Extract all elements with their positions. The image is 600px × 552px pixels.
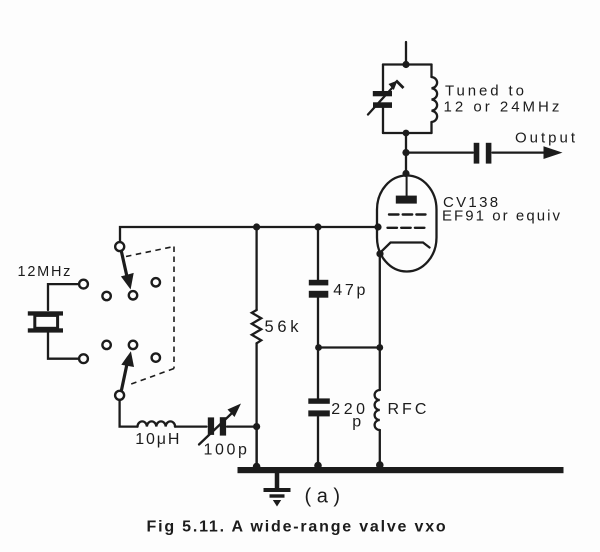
svg-text:12 or 24MHz: 12 or 24MHz [444,99,563,116]
svg-text:10μH: 10μH [135,431,181,448]
svg-text:( a ): ( a ) [305,486,341,508]
svg-text:Tuned to: Tuned to [445,83,527,100]
svg-text:100p: 100p [204,442,250,459]
svg-text:Output: Output [515,129,578,146]
svg-text:p: p [352,414,361,431]
svg-text:12MHz: 12MHz [18,264,73,280]
svg-text:56k: 56k [265,318,303,336]
svg-text:220: 220 [331,401,368,418]
svg-text:Fig 5.11. A wide-range valve v: Fig 5.11. A wide-range valve vxo [147,519,448,536]
svg-text:47p: 47p [333,282,368,299]
svg-text:EF91 or equiv: EF91 or equiv [442,207,562,224]
svg-text:RFC: RFC [388,401,430,418]
